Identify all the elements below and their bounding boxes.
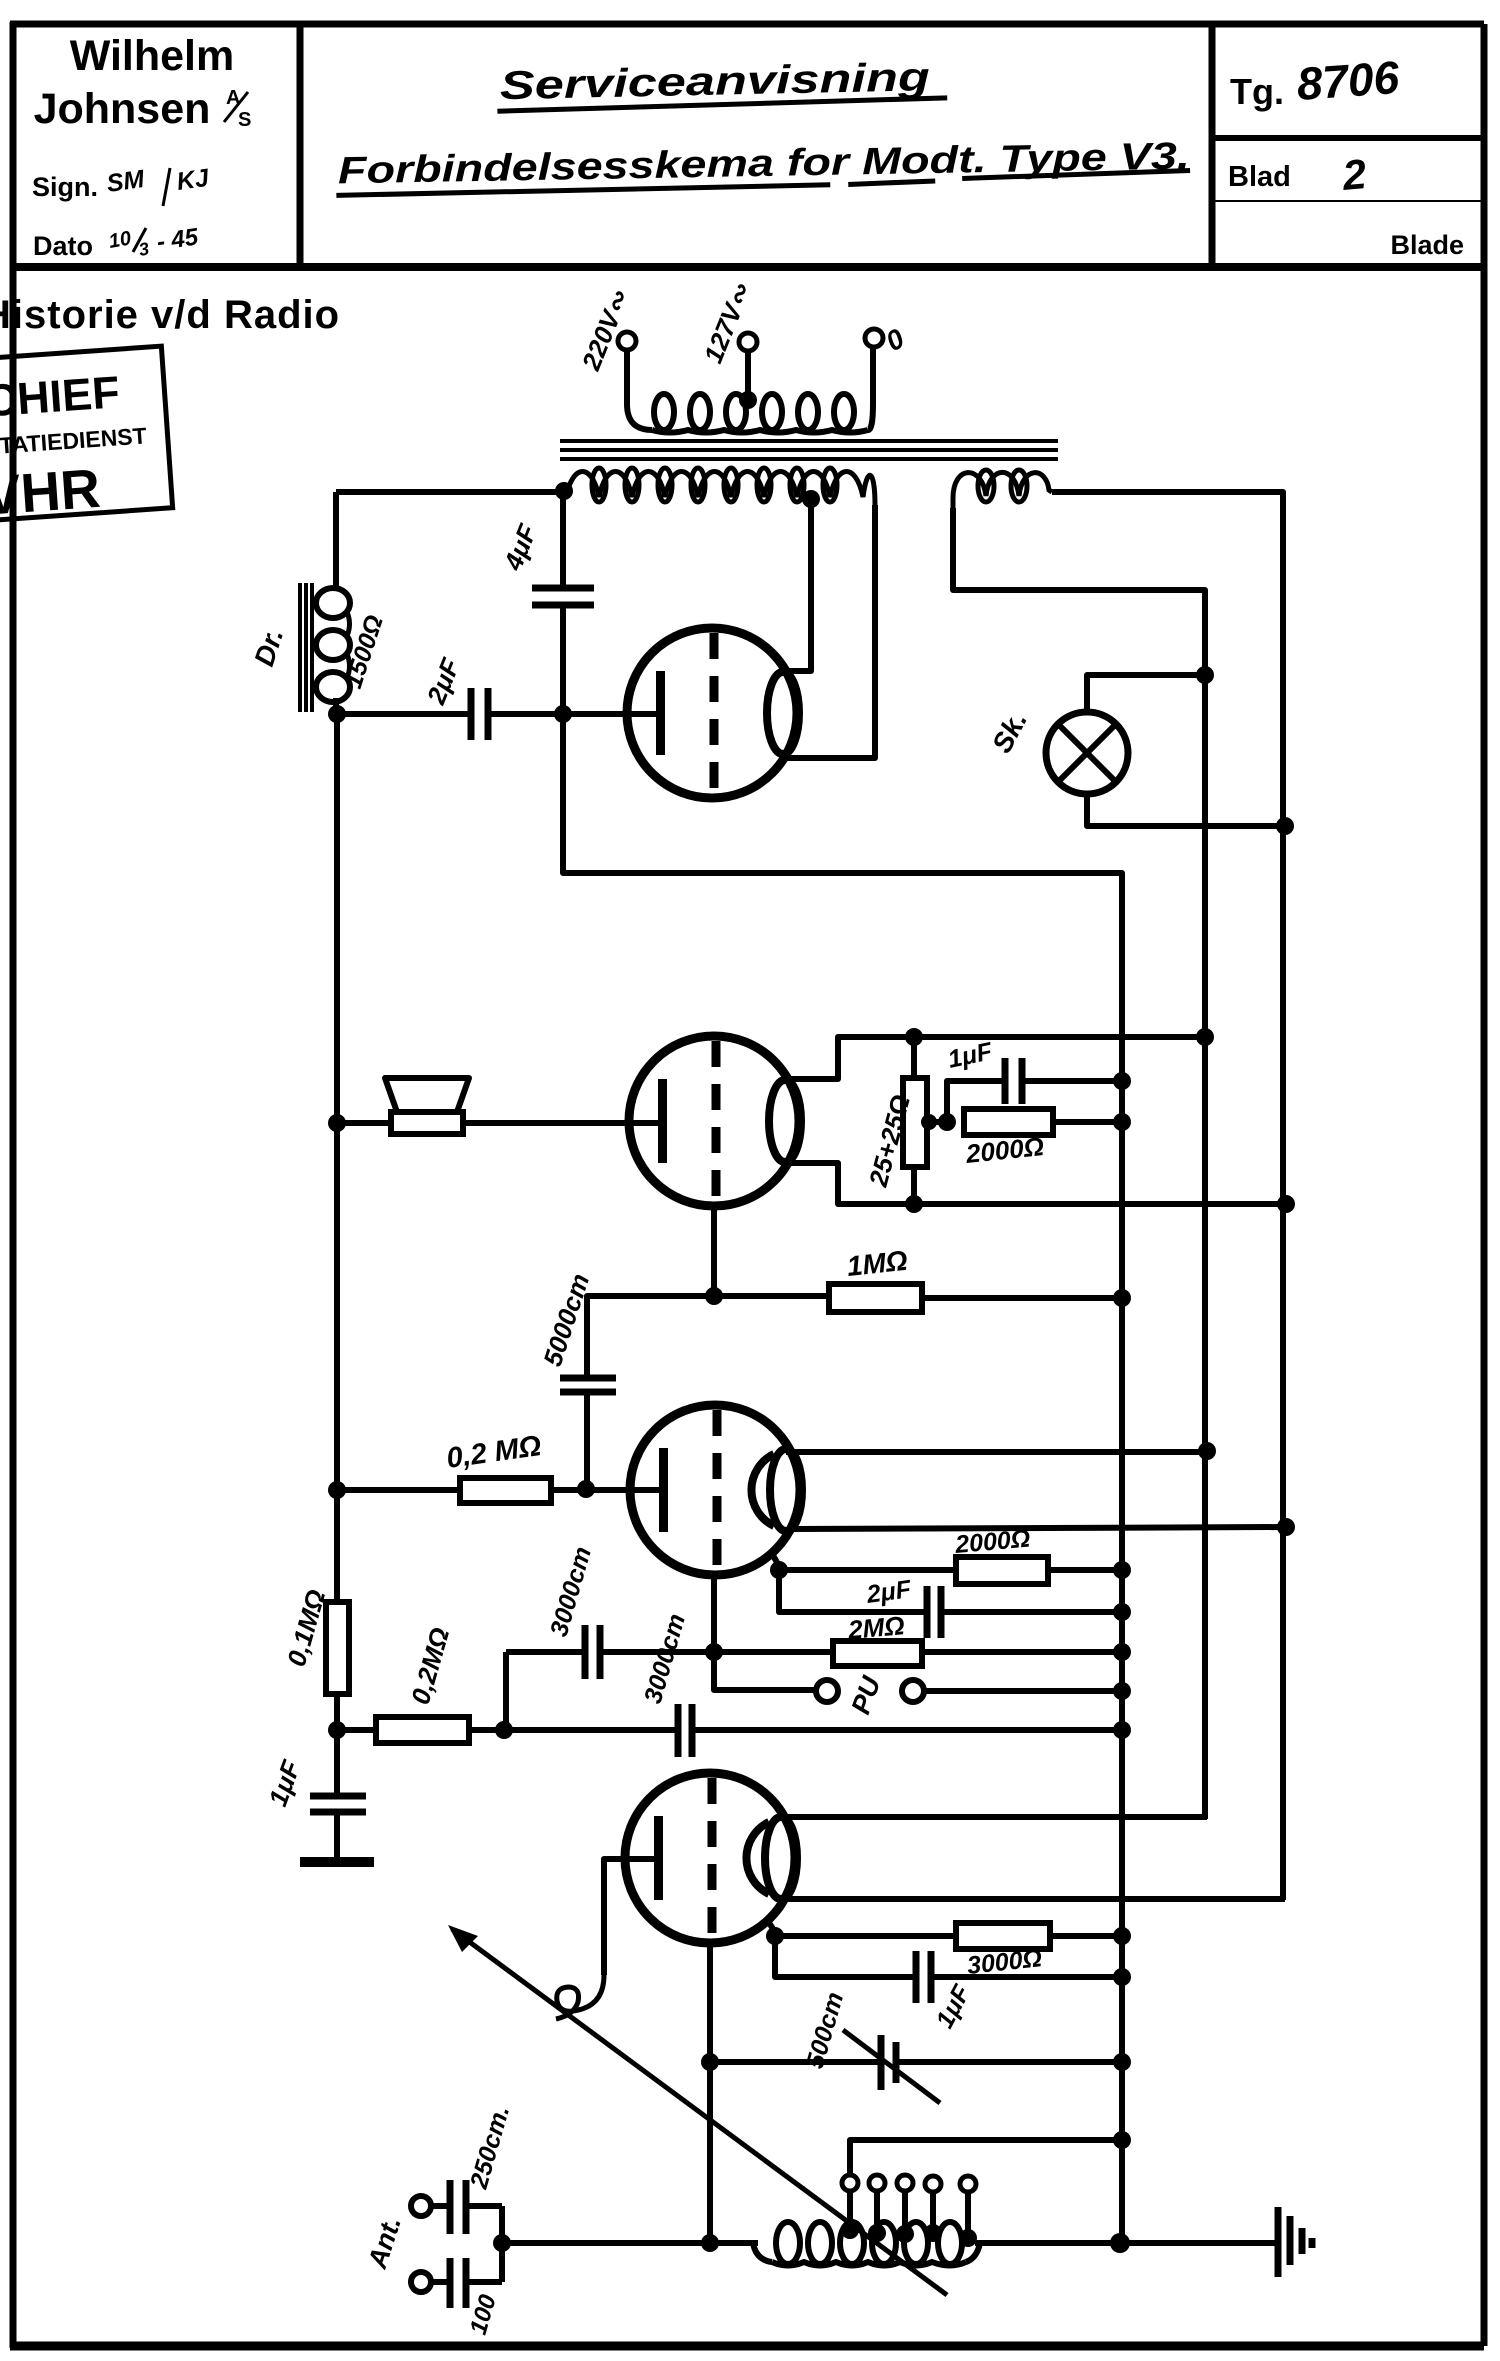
svg-text:Historie v/d Radio: Historie v/d Radio [0, 293, 340, 337]
svg-text:1MΩ: 1MΩ [845, 1245, 909, 1282]
junction: choke bottom [328, 705, 346, 723]
junction: V4 cathode node [766, 1918, 775, 1932]
resistor 3000 ohm [775, 1923, 1122, 1949]
junction: 5000cm at grid [577, 1480, 595, 1498]
junction: V2 anode line at HT rail [1196, 1028, 1214, 1046]
resistor 0,1M ohm (vertical) [326, 1494, 349, 1730]
capacitor 250cm [431, 2180, 502, 2234]
junction: V3 screen at heater rail [1277, 1518, 1295, 1536]
AF tube V3 [630, 1405, 802, 1575]
corner: heater rail to V4 screen [1280, 1895, 1286, 1900]
wire: V4 screen to heater rail [778, 1896, 1285, 1902]
wire: V4 bottom [707, 1943, 713, 2243]
junction: V2 grid node [705, 1287, 723, 1305]
wire: lamp bottom to heater rail [1087, 794, 1285, 826]
junction: 2uF / 4uF node [554, 705, 572, 723]
capacitor 3000cm (lower) [504, 1704, 1122, 1757]
junction: V4 tuned-grid node [701, 2053, 719, 2071]
wire: heater rail right [1280, 826, 1286, 1897]
terminal 0 [865, 329, 883, 347]
junction: speaker line on supply rail [328, 1114, 346, 1132]
junction: aerial coil / V4 line [701, 2234, 719, 2252]
capacitor 2uF [471, 688, 488, 740]
capacitor 100 [431, 2258, 502, 2308]
svg-text:Wilhelm: Wilhelm [70, 32, 234, 80]
wire: V4 anode to HT feed rail [782, 1814, 1207, 1820]
potentiometer 25+25 ohm [903, 1037, 927, 1204]
wire: rail to speaker [337, 1120, 391, 1126]
junction: lamp feed on filament rail [1196, 666, 1214, 684]
wave-band switch contacts [841, 2140, 1122, 2247]
transformer T1 HT secondary winding [566, 468, 875, 505]
svg-text:10: 10 [107, 227, 133, 253]
wire: speaker to V2 grid [463, 1120, 660, 1126]
aerial terminal lower [411, 2272, 431, 2292]
terminal 127V~ [739, 333, 757, 351]
resistor 1M ohm [714, 1284, 1122, 1312]
junction: ground rail bottom [1110, 2233, 1130, 2253]
junction: AVC node [328, 1721, 346, 1739]
junction: 2M at rail [1113, 1643, 1131, 1661]
wire: V1 output down to HT rail [563, 718, 1122, 2243]
junction: pot bottom [905, 1195, 923, 1213]
wire: V2 anode to HT rail [787, 1037, 1205, 1079]
output tube V2 [629, 1036, 801, 1206]
transformer T1 core [560, 441, 1058, 459]
band selector arrow [448, 1925, 947, 2295]
svg-text:Blade: Blade [1390, 230, 1464, 260]
capacitor 2uF (V3 cathode) [779, 1570, 1122, 1638]
junction: switch common at rail [1113, 2131, 1131, 2149]
chassis ground (bottom right) [1278, 2207, 1312, 2277]
svg-text:Blad: Blad [1228, 161, 1291, 193]
transformer T1 rectifier filament winding (right) [953, 470, 1052, 510]
junction: HT secondary left end / 4uF / mains line [555, 482, 573, 500]
wire: V3 screen to heater rail [792, 1527, 1286, 1529]
capacitor 5000cm (coupling) [560, 1296, 714, 1489]
terminal 220V~ [618, 332, 636, 350]
junction: detector node [705, 1643, 723, 1661]
wire: V1 anode to HT winding right end [786, 505, 875, 758]
junction: pot wiper [921, 1114, 937, 1130]
junction: V3 anode at HT feed rail [1198, 1442, 1216, 1460]
aerial tuning coil [753, 2222, 980, 2266]
transformer T1 primary winding [627, 346, 873, 433]
wire: V3 bottom [711, 1575, 717, 1652]
wire: HT winding left to choke line [336, 489, 560, 495]
svg-text:KJ: KJ [175, 164, 212, 196]
title: Blad 2 [1228, 150, 1368, 199]
wire: choke to 2uF [337, 711, 471, 717]
title: company name Wilhelm Johnsen A/S [34, 32, 252, 133]
junction: 1uF at rail [1113, 1072, 1131, 1090]
resistor 2M ohm [714, 1641, 1122, 1666]
svg-text:Tg.: Tg. [1230, 71, 1284, 112]
capacitor 1uF (cathode bypass) [947, 1058, 1122, 1122]
wire: filament winding left end down and right [953, 508, 1205, 675]
capacitor 4uF [532, 494, 594, 712]
resistor 2000 ohm (bias) [964, 1109, 1122, 1135]
loudspeaker [385, 1078, 469, 1134]
wire: V3 anode to HT feed rail [786, 1449, 1207, 1455]
title: Tg. 8706 [1230, 51, 1401, 112]
wire: coil to ground rail [975, 2240, 1122, 2246]
aerial terminal upper [411, 2196, 431, 2216]
choke Dr. winding 1500 ohm [316, 492, 350, 712]
wire: V2 bottom [711, 1206, 717, 1296]
title: Forbindelsesskema for Modt. Type V3. [336, 135, 1191, 195]
junction: PU at rail [1113, 1682, 1131, 1700]
title: Sign. SM/KJ [32, 164, 212, 206]
wire: V2 cathode side down [787, 1163, 1286, 1204]
junction: lamp return on heater rail [1276, 817, 1294, 835]
chassis ground (bottom left) [300, 1857, 374, 1867]
junction: 2000 ohm at rail [1113, 1113, 1131, 1131]
wire: to chassis ground [1120, 2240, 1276, 2246]
svg-text:8706: 8706 [1295, 51, 1401, 110]
wire: V4 grid lead [604, 1859, 656, 1975]
svg-text:SM: SM [105, 165, 147, 198]
junction: 3000 ohm at rail [1113, 1927, 1131, 1945]
variable capacitor 500cm [710, 2030, 1122, 2103]
svg-text:2: 2 [1340, 150, 1368, 199]
stamp ARCHIEF DOCUMENTATIEDIENST NVHR [0, 346, 173, 534]
junction: aerial node [493, 2234, 511, 2252]
junction: grid line left [328, 1481, 346, 1499]
junction: 500cm at rail [1113, 2053, 1131, 2071]
transformer T1 primary centre-tap junction [739, 391, 757, 409]
resistor 0.2M ohm (V3 grid) [337, 1478, 661, 1503]
capacitor 1uF (V4 cathode) [775, 1936, 1122, 2003]
wire: aerial line [502, 2240, 758, 2246]
svg-text:Sign.: Sign. [32, 172, 98, 202]
transformer T1 HT centre tap to rectifier anode [802, 490, 820, 508]
title: Serviceanvisning (underlined) [496, 55, 947, 111]
junction: cathode line at heater rail [1277, 1195, 1295, 1213]
resistor 0,2M ohm (lower) [337, 1717, 504, 1743]
choke Dr. core [300, 583, 312, 712]
junction: 1M at rail [1113, 1289, 1131, 1307]
capacitor 1uF (AVC) with ground [310, 1730, 366, 1857]
grid lead curl [556, 1975, 604, 2019]
rectifier tube V1 [627, 628, 799, 798]
title: Dato 10/3-45 [33, 223, 200, 261]
corner: HT feed rail to V4 anode [1202, 1815, 1208, 1819]
wire: HT feed rail x=1205 [1202, 675, 1208, 1818]
junction: 3000cm branch [495, 1721, 513, 1739]
junction: V3 2000 ohm at rail [1113, 1561, 1131, 1579]
capacitor 3000cm (upper) [506, 1625, 714, 1730]
RF tube V4 [625, 1773, 797, 1943]
wire: aerial bus [499, 2206, 505, 2282]
pilot lamp Sk. [1046, 712, 1128, 794]
wire: filament winding right end to heater rail [1052, 492, 1283, 826]
junction: V3 cathode node [770, 1550, 779, 1566]
svg-text:S: S [238, 109, 251, 131]
wire: to lamp Sk [1087, 675, 1205, 715]
junction: pot top [905, 1028, 923, 1046]
junction: 2uF V3 at rail [1113, 1603, 1131, 1621]
svg-text:NVHR: NVHR [0, 457, 102, 530]
svg-text:2MΩ: 2MΩ [846, 1610, 906, 1645]
wire: 2uF to rectifier cathode [488, 711, 658, 717]
wire: left rail (choke output) down [334, 714, 340, 1602]
junction: 1uF V4 at rail [1113, 1968, 1131, 1986]
svg-text:Dato: Dato [33, 231, 93, 261]
resistor 2000 ohm (V3) [779, 1557, 1122, 1584]
pick-up terminals PU [714, 1652, 1122, 1702]
junction: 3000cm lower at rail [1113, 1721, 1131, 1739]
svg-text:Johnsen: Johnsen [34, 85, 211, 133]
